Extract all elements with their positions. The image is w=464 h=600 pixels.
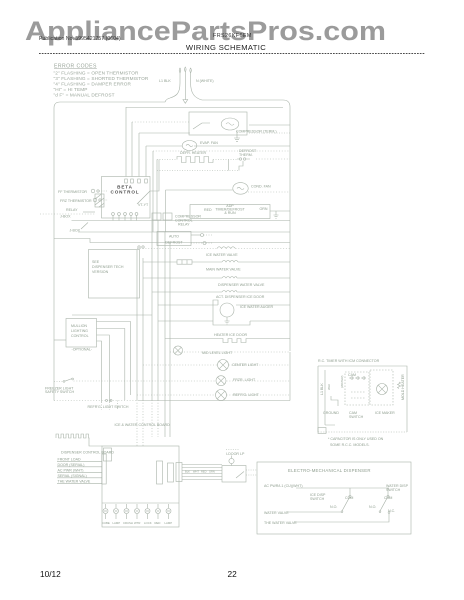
svg-text:ORN: ORN bbox=[260, 207, 268, 211]
svg-text:CAM: CAM bbox=[348, 373, 356, 377]
svg-text:BLK: BLK bbox=[185, 470, 190, 474]
svg-text:RED: RED bbox=[155, 521, 161, 525]
svg-text:COMPRESSOR (TERM.): COMPRESSOR (TERM.) bbox=[236, 130, 277, 134]
svg-text:VERSION: VERSION bbox=[92, 270, 109, 274]
svg-text:HEATER ICE DOOR: HEATER ICE DOOR bbox=[214, 333, 247, 337]
svg-text:AC PWR (WHT): AC PWR (WHT) bbox=[58, 469, 84, 473]
svg-text:CONTROL: CONTROL bbox=[71, 334, 89, 338]
svg-text:WATER VALVE: WATER VALVE bbox=[264, 511, 289, 515]
svg-text:ACT. DISPENSER ICE DOOR: ACT. DISPENSER ICE DOOR bbox=[216, 295, 265, 299]
svg-text:GROUND: GROUND bbox=[323, 411, 339, 415]
svg-text:"3" FLASHING = SHORTED THERMIS: "3" FLASHING = SHORTED THERMISTOR bbox=[54, 76, 149, 81]
svg-text:"d F" = MANUAL DEFROST: "d F" = MANUAL DEFROST bbox=[54, 93, 115, 98]
svg-text:FF THERMISTOR: FF THERMISTOR bbox=[58, 190, 87, 194]
svg-text:COND. FAN: COND. FAN bbox=[251, 185, 271, 189]
svg-text:10/12: 10/12 bbox=[40, 569, 61, 579]
svg-text:ICE MAKER: ICE MAKER bbox=[375, 411, 395, 415]
svg-text:RED: RED bbox=[204, 208, 212, 212]
svg-text:MAIN WATER VALVE: MAIN WATER VALVE bbox=[206, 268, 241, 272]
svg-text:DEFR. HEATER: DEFR. HEATER bbox=[180, 151, 206, 155]
svg-text:THERM.: THERM. bbox=[239, 153, 253, 157]
svg-text:RELAY: RELAY bbox=[178, 223, 190, 227]
svg-text:EVAP. FAN: EVAP. FAN bbox=[200, 141, 218, 145]
svg-text:ICE & WATER CONTROL BOARD: ICE & WATER CONTROL BOARD bbox=[115, 423, 171, 427]
svg-text:"HI" = HI TEMP: "HI" = HI TEMP bbox=[54, 87, 88, 92]
svg-text:SWITCH: SWITCH bbox=[310, 497, 325, 501]
svg-text:LAMP: LAMP bbox=[113, 521, 121, 525]
svg-text:N.O.: N.O. bbox=[330, 505, 337, 509]
svg-text:WTR: WTR bbox=[134, 521, 140, 525]
svg-text:ICE WATER VALVE: ICE WATER VALVE bbox=[206, 253, 238, 257]
svg-text:R.C. TIMER WITH ICM CONNECTOR: R.C. TIMER WITH ICM CONNECTOR bbox=[318, 359, 380, 363]
svg-text:SOME R.C.C. MODELS.: SOME R.C.C. MODELS. bbox=[330, 443, 370, 447]
svg-text:LAMP: LAMP bbox=[165, 521, 173, 525]
svg-text:RED: RED bbox=[201, 470, 207, 474]
svg-text:MID LEVEL LIGHT: MID LEVEL LIGHT bbox=[202, 351, 233, 355]
svg-text:N.O.: N.O. bbox=[369, 505, 376, 509]
svg-text:RELAY: RELAY bbox=[66, 208, 78, 212]
svg-text:* CAPACITOR IS ONLY USED ON: * CAPACITOR IS ONLY USED ON bbox=[328, 437, 384, 441]
svg-text:SERIAL (SIGNAL): SERIAL (SIGNAL) bbox=[58, 474, 87, 478]
svg-text:"2" FLASHING = OPEN THERMISTOR: "2" FLASHING = OPEN THERMISTOR bbox=[54, 71, 140, 76]
svg-text:MOLD HEATER: MOLD HEATER bbox=[401, 374, 405, 400]
svg-text:THE WATER VALVE: THE WATER VALVE bbox=[58, 480, 91, 484]
svg-text:22: 22 bbox=[228, 569, 238, 579]
svg-text:DISPENSER WATER VALVE: DISPENSER WATER VALVE bbox=[218, 283, 265, 287]
svg-text:"4" FLASHING = DAMPER ERROR: "4" FLASHING = DAMPER ERROR bbox=[54, 82, 132, 87]
svg-text:FRONT LOAD: FRONT LOAD bbox=[58, 458, 82, 462]
svg-text:MULLION: MULLION bbox=[71, 324, 87, 328]
svg-text:COM: COM bbox=[345, 496, 353, 500]
svg-text:I-DOOR LP: I-DOOR LP bbox=[226, 452, 245, 456]
svg-text:J-BOX: J-BOX bbox=[70, 229, 81, 233]
svg-text:SAFETY SWITCH: SAFETY SWITCH bbox=[45, 390, 74, 394]
svg-text:THE WATER VALVE: THE WATER VALVE bbox=[264, 521, 297, 525]
svg-text:REFR'G. LIGHT SWITCH: REFR'G. LIGHT SWITCH bbox=[88, 405, 129, 409]
svg-text:DEFROST: DEFROST bbox=[165, 241, 183, 245]
svg-text:COM: COM bbox=[384, 496, 392, 500]
svg-text:J-BOX: J-BOX bbox=[60, 215, 71, 219]
svg-text:CUBE: CUBE bbox=[102, 521, 110, 525]
svg-text:CENTER LIGHT: CENTER LIGHT bbox=[232, 363, 259, 367]
svg-text:FRZ THERMISTOR: FRZ THERMISTOR bbox=[60, 199, 92, 203]
svg-text:WHT: WHT bbox=[193, 470, 199, 474]
svg-text:WHI: WHI bbox=[327, 384, 331, 390]
svg-text:ELECTRO-MECHANICAL DISPENSER: ELECTRO-MECHANICAL DISPENSER bbox=[288, 468, 371, 473]
svg-text:VT-YT: VT-YT bbox=[138, 203, 149, 207]
svg-text:SWITCH: SWITCH bbox=[386, 488, 401, 492]
svg-text:N (WHITE): N (WHITE) bbox=[196, 79, 214, 83]
svg-text:L1 BLK: L1 BLK bbox=[320, 383, 324, 395]
svg-text:SEE: SEE bbox=[92, 260, 100, 264]
svg-text:& RUN: & RUN bbox=[224, 211, 236, 215]
svg-text:Publication No. 5995421757 (06: Publication No. 5995421757 (0604) bbox=[39, 36, 121, 42]
svg-text:REFR'G. LIGHT: REFR'G. LIGHT bbox=[233, 393, 260, 397]
svg-text:LIGHTING: LIGHTING bbox=[71, 329, 88, 333]
svg-text:CRUSH: CRUSH bbox=[123, 521, 133, 525]
svg-text:AC PWR/L1 (CU)(WHT): AC PWR/L1 (CU)(WHT) bbox=[264, 484, 303, 488]
svg-text:L1 BLK: L1 BLK bbox=[159, 79, 171, 83]
svg-text:-OPTIONAL-: -OPTIONAL- bbox=[72, 348, 93, 352]
svg-text:DOOR (SERIAL): DOOR (SERIAL) bbox=[58, 463, 85, 467]
svg-text:CONTROL: CONTROL bbox=[110, 190, 139, 195]
svg-text:N.C.: N.C. bbox=[388, 509, 395, 513]
svg-text:ICE WATER AUGER: ICE WATER AUGER bbox=[240, 305, 274, 309]
svg-text:AUTO: AUTO bbox=[169, 235, 179, 239]
svg-text:SWITCH: SWITCH bbox=[349, 415, 364, 419]
svg-text:DISPENSER TECH: DISPENSER TECH bbox=[92, 265, 124, 269]
svg-text:ERROR CODES: ERROR CODES bbox=[54, 63, 97, 69]
svg-text:DISPENSER CONTROL BOARD: DISPENSER CONTROL BOARD bbox=[61, 451, 114, 455]
svg-text:FRS26KF6EM: FRS26KF6EM bbox=[213, 33, 252, 39]
svg-text:WIRING SCHEMATIC: WIRING SCHEMATIC bbox=[186, 43, 266, 52]
svg-text:FRZR. LIGHT: FRZR. LIGHT bbox=[233, 378, 256, 382]
svg-text:LOCK: LOCK bbox=[144, 521, 152, 525]
svg-text:(WATER): (WATER) bbox=[340, 376, 344, 389]
svg-text:GRN: GRN bbox=[209, 470, 215, 474]
